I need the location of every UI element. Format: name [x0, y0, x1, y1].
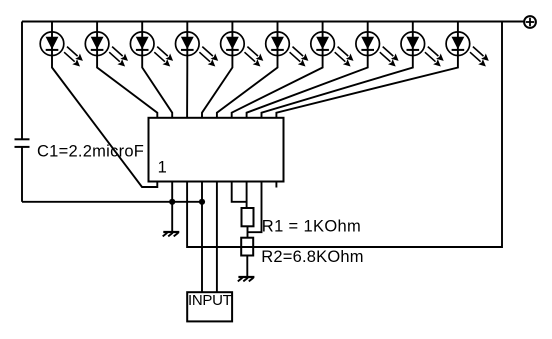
- svg-text:INPUT: INPUT: [188, 292, 232, 309]
- svg-text:R1 = 1KOhm: R1 = 1KOhm: [262, 218, 361, 236]
- svg-text:1: 1: [158, 159, 167, 177]
- svg-text:C1=2.2microF: C1=2.2microF: [37, 143, 144, 161]
- svg-text:R2=6.8KOhm: R2=6.8KOhm: [261, 248, 363, 266]
